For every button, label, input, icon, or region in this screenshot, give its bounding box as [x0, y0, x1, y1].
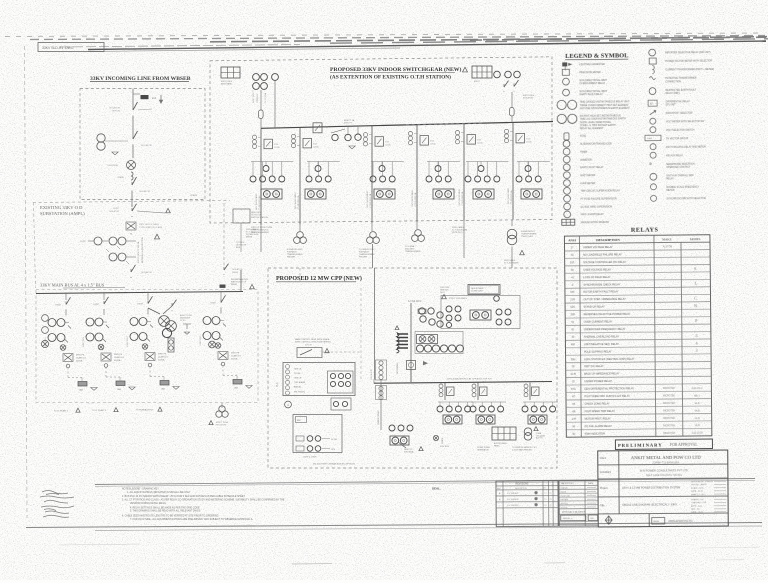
- svg-text:SUBSTATION (AMPL): SUBSTATION (AMPL): [40, 211, 85, 216]
- svg-text:DOUBLE SCALE FREQUENCY: DOUBLE SCALE FREQUENCY: [666, 186, 699, 189]
- svg-text:DATE - 05.11: DATE - 05.11: [691, 490, 704, 493]
- feeder small circle under LA: [221, 362, 225, 366]
- svg-text:RESTRICTED EARTH FAULT: RESTRICTED EARTH FAULT: [666, 88, 697, 91]
- svg-text:MODEL: MODEL: [690, 237, 701, 241]
- svg-text:P R E L I M I N A R Y: P R E L I M I N A R Y: [618, 442, 662, 447]
- legend item: TRIP CIRCUIT SUPERVISION RELAY: [564, 187, 571, 194]
- svg-text:HIGH SPEED TRIP RELAY: HIGH SPEED TRIP RELAY: [585, 410, 616, 413]
- master relay pair: [374, 189, 395, 199]
- svg-text:REVISIONS: REVISIONS: [515, 483, 528, 486]
- svg-text:9.02.15.04: 9.02.15.04: [692, 433, 704, 435]
- svg-text:OVER VOLTAGE RELAY: OVER VOLTAGE RELAY: [583, 268, 611, 271]
- relays table header row: [564, 242, 709, 243]
- svg-text:2. BUS PCC 33 KV INDOOR SWITCH: 2. BUS PCC 33 KV INDOOR SWITCHGEAR - 25 …: [122, 495, 245, 498]
- legend item: TIMER: [563, 148, 570, 155]
- warning tri bottom: [419, 447, 423, 451]
- relays table frame: [564, 235, 711, 437]
- svg-text:RELAY ALL ELEMENT: RELAY ALL ELEMENT: [580, 127, 604, 130]
- sheet bottom border: [26, 523, 762, 528]
- svg-text:05: 05: [550, 499, 552, 501]
- svg-text:LIGHTNING ARRESTER: LIGHTNING ARRESTER: [579, 63, 605, 66]
- svg-text:LAB: LAB: [79, 389, 83, 392]
- svg-text:TIME GRADED INSTANTANEOUS RELA: TIME GRADED INSTANTANEOUS RELAY UNIT: [580, 100, 630, 103]
- right riser to switchgear: [240, 270, 242, 292]
- PT fuse box with circles: [168, 338, 174, 352]
- fold mark bottom right: [700, 547, 760, 548]
- feeder small circle under LA: [148, 363, 152, 367]
- bay VCB breaker: [264, 139, 273, 149]
- PCC bay tree: [523, 401, 558, 403]
- legend item: IMPORTER SELECTIVE RELAY (DIR UNIT): [649, 49, 656, 56]
- legend item: ALTERNATOR/TRANSDUCER: [563, 140, 570, 147]
- svg-text:VA.B: VA.B: [695, 417, 701, 420]
- incoming feeder wire: [132, 89, 134, 108]
- isolator SW5: [130, 269, 132, 272]
- svg-text:100% STATOR E/F (NEUTRAL DISP): 100% STATOR E/F (NEUTRAL DISP) RELAY: [584, 358, 635, 361]
- svg-text:R V ISSUED: R V ISSUED: [507, 505, 519, 507]
- svg-text:UNDER POWER RELAY: UNDER POWER RELAY: [584, 380, 612, 383]
- feeder xcircle below CTs: [60, 345, 66, 351]
- svg-text:POTENTIAL TRANSFORMER: POTENTIAL TRANSFORMER: [665, 77, 696, 80]
- relay row: [518, 162, 520, 177]
- svg-text:C.: C.: [694, 296, 698, 301]
- feeder small circle under LA: [104, 364, 108, 368]
- svg-text:UNDER/OVER FREQUENCY RELAY: UNDER/OVER FREQUENCY RELAY: [584, 328, 626, 331]
- svg-text:11000/110V: 11000/110V: [257, 93, 259, 103]
- svg-text:PILOT WIRE DIFF CUM O/C E/F RE: PILOT WIRE DIFF CUM O/C E/F RELAY: [584, 395, 630, 398]
- preliminary approval box: [615, 439, 712, 449]
- new outdoor switch station box: [233, 209, 250, 223]
- svg-text:VA.B: VA.B: [695, 409, 701, 412]
- svg-text:(NEW): (NEW): [246, 237, 252, 239]
- top right fuse: [510, 108, 515, 117]
- incomer-1 fuse link: [259, 110, 264, 119]
- svg-text:REVERSE/LOW ACTIVE POWER RELAY: REVERSE/LOW ACTIVE POWER RELAY: [584, 313, 631, 316]
- future bus dashed extension: [406, 123, 484, 125]
- bus PT switch circles: [332, 134, 338, 140]
- svg-text:TRIP ALARM: TRIP ALARM: [294, 381, 306, 384]
- north compass symbol: [605, 516, 612, 524]
- gen arrow: [423, 361, 428, 365]
- svg-text:LIGHTNING: LIGHTNING: [107, 165, 118, 167]
- validity table frame: [559, 480, 598, 526]
- svg-text:3C X 400 SQMM: 3C X 400 SQMM: [504, 262, 519, 264]
- svg-text:JORBH 711 BANKURA: JORBH 711 BANKURA: [652, 460, 679, 464]
- bay VCB breaker: [420, 136, 429, 146]
- svg-text:CLASS 0.5: CLASS 0.5: [231, 355, 242, 358]
- svg-text:MAKE: MAKE: [662, 237, 671, 241]
- svg-text:INSTANT HIGH SET INSTANTANEOUS: INSTANT HIGH SET INSTANTANEOUS: [580, 115, 621, 118]
- legend item: RESTRICTED EARTH FAULT: [649, 88, 656, 95]
- bay5 spare exit: [463, 221, 465, 259]
- handwritten scrawl block: [40, 491, 74, 518]
- legend item: CURRENT TRANSFORMER (PROT + METER): [652, 66, 654, 74]
- aux boxed cluster: [331, 398, 351, 410]
- svg-text:CL 0.5: CL 0.5: [180, 320, 186, 322]
- svg-text:64F: 64F: [570, 291, 575, 294]
- svg-text:VA.B: VA.B: [694, 402, 700, 405]
- legend item: AMMETER: [563, 156, 570, 163]
- svg-text:SYNCH: SYNCH: [305, 345, 312, 347]
- svg-text:REV - R1: REV - R1: [691, 509, 700, 511]
- svg-text:SYNCHRONISM CHECK RELAY: SYNCHRONISM CHECK RELAY: [583, 283, 620, 286]
- svg-text:LIMIT/NEGATIVE SEQ. RELAY: LIMIT/NEGATIVE SEQ. RELAY: [584, 343, 619, 346]
- svg-text:OFF/ON: OFF/ON: [112, 111, 121, 113]
- svg-text:1.1: 1.1: [544, 499, 547, 501]
- charger row 1: [296, 436, 304, 441]
- svg-text:APPROVAL & VALIDATION: APPROVAL & VALIDATION: [562, 511, 586, 514]
- svg-text:ISSUE: ISSUE: [653, 521, 660, 523]
- svg-text:-86: -86: [572, 410, 576, 413]
- svg-text:CLASS 0.5: CLASS 0.5: [76, 357, 87, 360]
- feeder CT pair row2: [203, 332, 211, 340]
- CT chain row 2: [109, 253, 117, 261]
- svg-text:OUT OF STEP / IMPEDANCE RELAY: OUT OF STEP / IMPEDANCE RELAY: [584, 298, 627, 301]
- switchgear feeder bay x=464: [463, 124, 465, 221]
- svg-text:MV 415V SWITCHGEAR BUS AT CPP: MV 415V SWITCHGEAR BUS AT CPP BLDG: [313, 463, 355, 466]
- master relay pair: [433, 189, 454, 199]
- svg-text:21-B: 21-B: [571, 373, 577, 376]
- svg-text:CLASS 0.5: CLASS 0.5: [114, 356, 125, 359]
- svg-text:VENDOR DURING DETAIL ENGG.: VENDOR DURING DETAIL ENGG.: [130, 502, 167, 505]
- PCC bus bar: [374, 382, 552, 384]
- svg-text:33KV PS: 33KV PS: [231, 353, 240, 355]
- svg-text:N.: N.: [694, 303, 698, 308]
- PCC bay relay row: [439, 402, 441, 407]
- title block frame: [598, 450, 729, 527]
- svg-text:6. CABLE SIZES AND ROUTE LENGT: 6. CABLE SIZES AND ROUTE LENGTHS TO BE V…: [122, 514, 219, 517]
- svg-text:TIME LAG OVER INSTANTANEOUS EA: TIME LAG OVER INSTANTANEOUS EARTH: [580, 118, 626, 121]
- svg-text:EXIST 33KV PT: EXIST 33KV PT: [253, 89, 255, 103]
- svg-text:MICROTEK: MICROTEK: [663, 418, 676, 420]
- svg-text:1250A: 1250A: [526, 140, 532, 143]
- svg-text:33KV PS: 33KV PS: [76, 355, 85, 357]
- svg-text:Δ Y/ΔΔ 11KV: Δ Y/ΔΔ 11KV: [408, 300, 422, 303]
- svg-text:NO LOAD/FIELD FAILURE RELAY: NO LOAD/FIELD FAILURE RELAY: [583, 253, 622, 256]
- svg-text:EXIST: EXIST: [56, 305, 62, 307]
- legend item: POWER FACTOR METER WITH SELECTOR: [649, 58, 656, 64]
- svg-text:(87) UNIT: (87) UNIT: [666, 104, 677, 106]
- svg-text:METERING & PROTECTION: METERING & PROTECTION: [142, 236, 144, 263]
- svg-text:ROTOR EARTH FAULT RELAY: ROTOR EARTH FAULT RELAY: [583, 291, 618, 294]
- control link line: [322, 351, 361, 353]
- svg-text:EXIST: EXIST: [211, 303, 217, 305]
- svg-text:GEN CB: GEN CB: [294, 378, 302, 380]
- svg-text:ISOLATOR: ISOLATOR: [141, 144, 152, 147]
- svg-text:VA.B: VA.B: [695, 424, 701, 427]
- svg-text:33KV INCOMING LINE FROM WBSEB: 33KV INCOMING LINE FROM WBSEB: [90, 76, 191, 82]
- svg-text:NORTH: NORTH: [603, 514, 610, 516]
- svg-text:SPARE: SPARE: [441, 437, 444, 444]
- svg-text:& 415V MAIN FEEDER: & 415V MAIN FEEDER: [512, 448, 532, 451]
- validity rows: [559, 484, 598, 486]
- isolator SW1: [132, 107, 134, 110]
- gen relay enclosure: [441, 296, 520, 329]
- svg-text:STAND UP RELAY: STAND UP RELAY: [584, 306, 605, 309]
- svg-text:CT 400-200/5-5A: CT 400-200/5-5A: [414, 192, 417, 207]
- wire: [132, 117, 134, 136]
- CPP inner dashed spine: [360, 288, 362, 382]
- svg-text:415V BUS: 415V BUS: [440, 446, 450, 448]
- svg-text:(GEN CONTROL+SYNCH+METERING): (GEN CONTROL+SYNCH+METERING): [295, 342, 331, 344]
- svg-text:Consultant: Consultant: [600, 471, 611, 474]
- PCC bay relay row: [524, 402, 526, 407]
- svg-text:33KV MAIN BUS AL 4 x 1.5" BUS: 33KV MAIN BUS AL 4 x 1.5" BUS: [40, 283, 105, 288]
- relay tree: [251, 161, 293, 163]
- legend item: DOUBLE SCALE FREQUENCY: [650, 184, 656, 190]
- svg-text:MICROTEK: MICROTEK: [663, 410, 676, 412]
- top-right grid symbol: [472, 66, 492, 78]
- bay VCB breaker: [467, 135, 476, 145]
- switchgear feeder bay x=513: [512, 122, 514, 219]
- svg-text:SHEET - 1 OF 1: SHEET - 1 OF 1: [691, 494, 706, 496]
- bay VCB breaker: [375, 137, 384, 147]
- svg-text:LAB: LAB: [234, 387, 238, 390]
- feeder fuse: [233, 380, 242, 385]
- feeder fuse: [78, 382, 87, 387]
- svg-text:KW TOTALIZING RELAY AND METER: KW TOTALIZING RELAY AND METER: [666, 145, 706, 148]
- svg-text:DC DB: DC DB: [331, 439, 338, 441]
- svg-text:SEMAPHORE INDICATION: SEMAPHORE INDICATION: [666, 163, 695, 166]
- svg-text:EXIST: EXIST: [138, 304, 144, 306]
- relay row: [467, 162, 469, 177]
- gen xcircle boxed pair: [417, 335, 438, 344]
- svg-text:1.1: 1.1: [544, 505, 547, 507]
- svg-text:(AS EXTENTION OF EXISTING O.T.: (AS EXTENTION OF EXISTING O.T.H STATION): [330, 74, 451, 81]
- bay CT stack: [252, 135, 256, 139]
- bus PT stack at left of PCC: [376, 360, 387, 380]
- exist battery grid symbol left: [221, 67, 240, 78]
- svg-text:TYPE STATION CLASS: TYPE STATION CLASS: [139, 226, 163, 229]
- warning tri near grid: [462, 67, 467, 72]
- svg-text:EXIST: EXIST: [80, 241, 87, 243]
- svg-text:MICROTEK: MICROTEK: [663, 403, 676, 405]
- svg-text:SWITCH STATION: SWITCH STATION: [251, 216, 268, 219]
- clover at main bus bottom: [219, 406, 225, 412]
- svg-text:ISOLATOR: ISOLATOR: [109, 107, 120, 110]
- svg-text:RELAY (REF): RELAY (REF): [666, 92, 680, 95]
- main-bus feeder at x=148: [147, 301, 149, 304]
- gen cluster frame: [415, 332, 463, 354]
- svg-text:⦻: ⦻: [649, 161, 652, 166]
- feeder xcircle below CTs: [98, 344, 104, 350]
- legend item: VOLT METER WITH SELECTOR SW: [650, 118, 656, 124]
- svg-text:CHECK ZONE RELAY: CHECK ZONE RELAY: [585, 402, 610, 405]
- left entry line from bay2: [299, 268, 301, 282]
- svg-text:1250A: 1250A: [385, 144, 391, 147]
- PLC inner relay box: [328, 371, 354, 393]
- sheet left border: [25, 46, 28, 518]
- cable squiggle: [131, 172, 133, 180]
- svg-text:EARTH FAULT RELAY: EARTH FAULT RELAY: [580, 166, 604, 169]
- incomer-1 top circle: [272, 74, 279, 81]
- svg-text:CT 400-200/5-5A: CT 400-200/5-5A: [297, 195, 300, 210]
- switchgear feeder bay x=417: [416, 125, 418, 222]
- svg-text:SPARE: SPARE: [117, 176, 124, 179]
- sheet top border: [88, 41, 766, 50]
- svg-text:NOTES/LEGEND - DRAWING KEY: NOTES/LEGEND - DRAWING KEY: [122, 488, 159, 491]
- feeder LA box: [63, 354, 73, 362]
- svg-text:11KV 800A: 11KV 800A: [404, 450, 414, 453]
- svg-text:400/1A: 400/1A: [158, 359, 165, 362]
- svg-text:UNDER VOLTAGE RELAY: UNDER VOLTAGE RELAY: [583, 246, 613, 249]
- wire leaving enclosure: [131, 192, 133, 207]
- legend item: DC BUS WIRE SUPERVISION: [564, 203, 571, 210]
- svg-text:400/1A: 400/1A: [231, 358, 238, 361]
- control switch box: [297, 348, 322, 358]
- feeder ground: [129, 387, 135, 390]
- svg-text:SYNCHROSCOPE WITH SELECTOR: SYNCHROSCOPE WITH SELECTOR: [667, 198, 706, 200]
- station transformer circles: [524, 428, 532, 436]
- svg-text:ANSI: ANSI: [568, 238, 576, 242]
- legend item: TIME GRADED INSTANTANEOUS RELAY UNIT: [557, 100, 566, 109]
- master relay pair: [473, 189, 494, 199]
- legend item: KW AUX RELAY: [650, 152, 656, 158]
- svg-text:LEGEND & SYMBOL: LEGEND & SYMBOL: [565, 52, 628, 60]
- svg-text:GROUNDED: GROUNDED: [397, 362, 399, 374]
- svg-text:33KV SWGR PANEL: 33KV SWGR PANEL: [411, 190, 414, 207]
- feeder drop link: [67, 368, 69, 378]
- svg-text:(NEW): (NEW): [231, 284, 237, 286]
- svg-text:Client: Client: [600, 457, 606, 460]
- svg-text:PANEL: PANEL: [494, 444, 500, 447]
- legend item: VOLT SELECTOR SWITCH: [650, 127, 656, 133]
- relay row: [308, 162, 310, 177]
- gen relay cluster grid: [419, 308, 425, 314]
- svg-text:EXIST 33KV: EXIST 33KV: [83, 336, 85, 347]
- svg-text:5. THIS DRAWING SHALL BE READ: 5. THIS DRAWING SHALL BE READ WITH ALL R…: [130, 510, 201, 513]
- svg-text:33KV SWGR PANEL: 33KV SWGR PANEL: [458, 189, 461, 206]
- bay6 transformer to CPP: [511, 220, 513, 227]
- feeder CT pair row1: [48, 319, 56, 327]
- gen side cluster row: [416, 345, 423, 352]
- svg-text:7. FOR 33 KV SIDE - ALL EQUIPM: 7. FOR 33 KV SIDE - ALL EQUIPMENT RATING…: [130, 518, 253, 521]
- svg-text:DIFFERENTIAL RELAY: DIFFERENTIAL RELAY: [666, 100, 691, 103]
- svg-text:PRECISION METER: PRECISION METER: [579, 72, 601, 74]
- relay row: [372, 162, 374, 177]
- svg-text:33KV SWGR PANEL: 33KV SWGR PANEL: [294, 193, 297, 210]
- svg-text:33KV PT: 33KV PT: [344, 122, 353, 124]
- svg-text:3: 3: [695, 348, 697, 353]
- svg-text:3: 3: [695, 333, 697, 338]
- svg-text:MB-1: MB-1: [694, 396, 700, 398]
- svg-text:VALIDITY NO: VALIDITY NO: [561, 482, 574, 485]
- relay tree: [517, 161, 550, 163]
- svg-text:33KV PS: 33KV PS: [158, 354, 167, 356]
- legend item: FUSE: [564, 133, 569, 140]
- svg-text:HOLCTION: HOLCTION: [216, 424, 226, 426]
- svg-text:S.: S.: [694, 266, 697, 271]
- svg-text:11KV 2000A GEN PCC AT CPP BLDG: 11KV 2000A GEN PCC AT CPP BLDG TOP FLR: [447, 378, 492, 381]
- svg-text:33 KV & 12 MW POWER DISTRIBUTI: 33 KV & 12 MW POWER DISTRIBUTION SYSTEM: [622, 485, 680, 489]
- bay CT stack: [504, 129, 508, 133]
- feeder risers from bus: [65, 293, 67, 300]
- ground at CT: [112, 152, 118, 155]
- svg-text:RELAY: RELAY: [666, 177, 674, 180]
- feeder drop link: [222, 366, 224, 376]
- validity SRN row: [561, 515, 586, 521]
- svg-text:THERMAL OVERLOAD RELAY: THERMAL OVERLOAD RELAY: [584, 335, 620, 338]
- title block row rules: [598, 463, 728, 466]
- issue box: [652, 517, 665, 524]
- relay row: [428, 162, 430, 177]
- svg-text:DC BUS WIRE SUPERVISION: DC BUS WIRE SUPERVISION: [581, 206, 613, 208]
- svg-text:R V ISSUED: R V ISSUED: [507, 499, 519, 501]
- svg-text:MICROTEK: MICROTEK: [663, 433, 676, 435]
- relay tree: [427, 161, 460, 163]
- svg-text:EARTH FAULT RELAY: EARTH FAULT RELAY: [580, 93, 604, 96]
- validity approval merged row: [559, 509, 598, 515]
- svg-text:TRANSFORMER: TRANSFORMER: [377, 410, 380, 425]
- svg-text:PLC: PLC: [276, 382, 279, 387]
- svg-text:CT 400-200/5-5A: CT 400-200/5-5A: [258, 196, 261, 211]
- bay CT stack: [408, 132, 412, 136]
- lightning arrester arrow: [160, 95, 162, 101]
- svg-text:ISOLATOR: ISOLATOR: [139, 190, 150, 193]
- battery charger panel: [293, 415, 342, 453]
- svg-text:CHECKED - P.M: CHECKED - P.M: [691, 502, 706, 504]
- CPP dashed enclosure: [268, 268, 557, 468]
- svg-text:ALSTOM: ALSTOM: [663, 245, 673, 248]
- svg-text:FEEDER: FEEDER: [287, 257, 296, 259]
- svg-text:FUSE: FUSE: [580, 136, 587, 138]
- revision table frame: [496, 481, 558, 527]
- bus PT ground: [349, 146, 355, 149]
- svg-text:WATT METER: WATT METER: [580, 174, 595, 177]
- svg-text:Title: Title: [600, 504, 605, 507]
- svg-text:YNd11 Z=8%: YNd11 Z=8%: [521, 236, 533, 238]
- svg-text:DT: DT: [543, 488, 545, 490]
- svg-text:11KV BUS PT: 11KV BUS PT: [371, 368, 373, 380]
- svg-text:EXIST: EXIST: [94, 304, 100, 306]
- svg-text:12 MW 11KV: 12 MW 11KV: [471, 291, 483, 293]
- switchgear main bus: [261, 122, 553, 129]
- notes top rule: [95, 479, 755, 485]
- PCC feeder bay x=478: [477, 383, 479, 400]
- svg-text:LIGHT & CHGR: LIGHT & CHGR: [303, 457, 317, 459]
- feeder small circle under LA: [66, 364, 70, 368]
- svg-text:DRG STATUS - PRELIM: DRG STATUS - PRELIM: [691, 480, 713, 483]
- svg-text:AUX TR: AUX TR: [536, 437, 543, 440]
- svg-text:CLASS 0.5: CLASS 0.5: [158, 356, 169, 359]
- legend item: INDICATOR / SELECTOR: [650, 110, 656, 115]
- relay tree: [466, 161, 508, 163]
- svg-text:21R: 21R: [570, 298, 575, 301]
- gen box side circle: [494, 296, 500, 302]
- feeder ground: [246, 386, 252, 389]
- mid CT column: [376, 386, 387, 400]
- isolator SW4 with lead: [131, 208, 133, 211]
- PLC IO circle strip: [286, 365, 290, 369]
- svg-text:-87: -87: [572, 395, 576, 398]
- generator breaker: [407, 361, 416, 370]
- svg-text:ISOLATOR: ISOLATOR: [523, 96, 533, 99]
- svg-text:CLOSE: CLOSE: [294, 373, 301, 375]
- svg-text:DATE: DATE: [588, 482, 594, 485]
- svg-text:SALT LAKE KOLKATA 700 091: SALT LAKE KOLKATA 700 091: [646, 473, 682, 477]
- svg-text:1. ALL EQUIP. RATINGS INDICATE: 1. ALL EQUIP. RATINGS INDICATED IN SINGL…: [127, 491, 191, 494]
- svg-text:DESCRIPTION: DESCRIPTION: [596, 238, 620, 242]
- svg-text:UNIT AUX OVERALL DIFF: UNIT AUX OVERALL DIFF: [666, 174, 694, 177]
- legend item: INSTANT HIGH SET INSTANTANEOUS: [557, 114, 566, 123]
- svg-text:SINGLE LINE DIAGRAM (ELECTRICA: SINGLE LINE DIAGRAM (ELECTRICAL) - 33KV: [622, 502, 677, 506]
- feeder xcircle below CTs: [215, 343, 221, 349]
- svg-text:KWH INDICATOR: KWH INDICATOR: [585, 432, 605, 435]
- LA X symbol: [126, 222, 136, 230]
- bay CT stack: [363, 133, 367, 137]
- legend item: DIFFERENTIAL RELAY: [648, 100, 657, 106]
- lightning arrester LA1: [127, 161, 136, 170]
